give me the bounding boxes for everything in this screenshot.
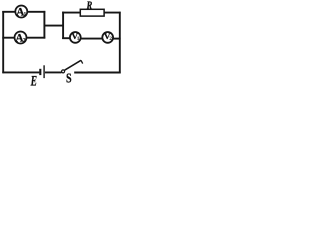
wire A1 branch right segment	[27, 11, 45, 13]
battery E positive plate (long thin)	[43, 65, 45, 78]
svg-text:S: S	[66, 71, 72, 86]
switch S blade tip hook	[81, 60, 83, 63]
svg-text:2: 2	[23, 37, 26, 44]
wire left vertical	[2, 11, 4, 73]
wire bottom right segment	[74, 72, 120, 74]
voltmeter V1	[70, 31, 81, 43]
wire R branch left segment	[62, 12, 81, 14]
voltmeter V2	[102, 31, 113, 43]
wire V branch left segment	[62, 37, 70, 39]
switch S blade	[65, 60, 81, 70]
wire connector between blocks	[44, 25, 64, 27]
wire A1 branch left segment	[2, 11, 15, 13]
svg-text:2: 2	[109, 36, 112, 42]
wire between V1 and V2	[81, 38, 103, 40]
wire A2 branch right segment	[26, 37, 45, 39]
svg-text:E: E	[30, 74, 37, 87]
switch S pivot	[62, 70, 65, 73]
ammeter A2	[15, 32, 27, 45]
wire right vertical	[119, 12, 121, 74]
wire RV-block left edge	[62, 12, 64, 39]
wire A2 branch left segment	[2, 37, 14, 39]
svg-text:R: R	[86, 0, 93, 12]
wire battery to switch	[45, 71, 62, 73]
wire bottom left segment	[2, 71, 39, 73]
svg-text:1: 1	[77, 36, 80, 42]
battery E negative plate (short thick)	[39, 69, 41, 75]
resistor R	[80, 9, 104, 16]
ammeter A1	[15, 6, 27, 19]
svg-text:1: 1	[23, 11, 26, 18]
wire A-block right edge	[43, 11, 45, 39]
wire R branch right segment	[104, 12, 121, 14]
wire V branch right segment	[113, 38, 121, 40]
